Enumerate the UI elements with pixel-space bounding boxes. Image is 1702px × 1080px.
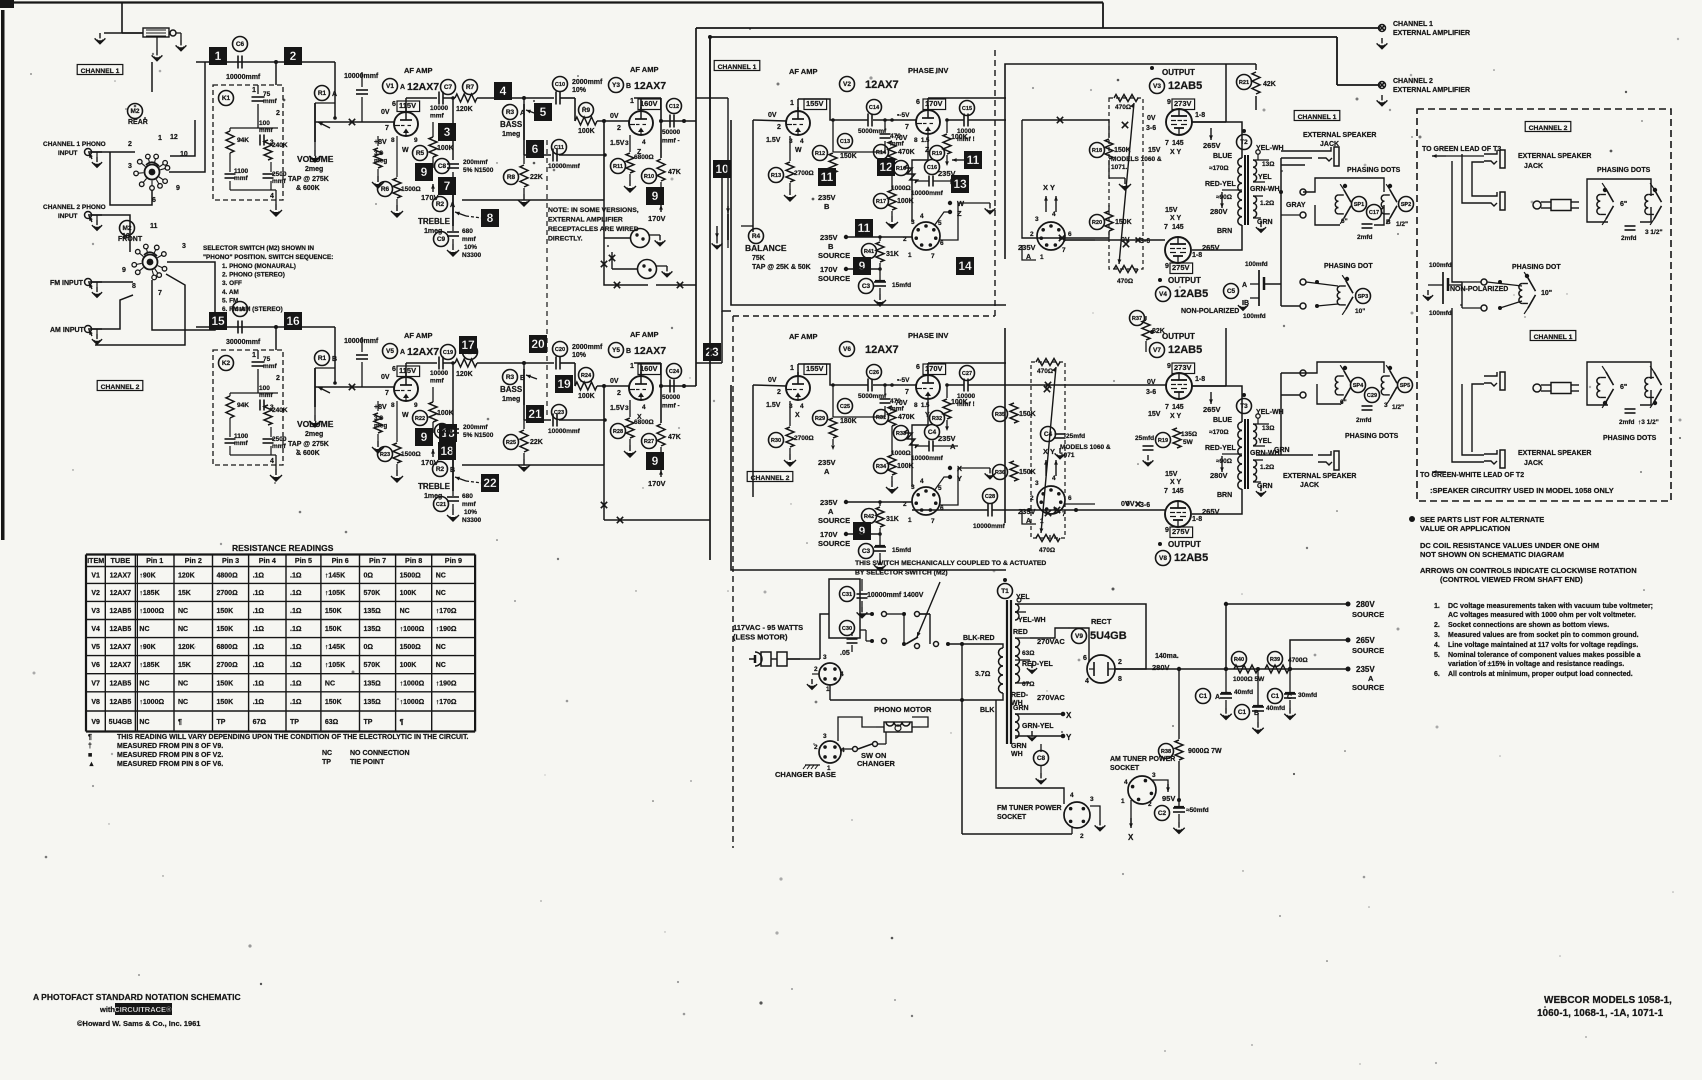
resistor R12 150K [813,120,857,185]
capacitor C19 10000mmf [430,345,456,385]
wire plate V6A run [798,364,916,387]
svg-text:SP5: SP5 [1400,383,1411,389]
svg-text:A: A [950,442,956,451]
resistor R24 120K [455,345,524,379]
svg-text:4: 4 [1052,211,1056,218]
circuitrace box 21 [526,405,544,423]
svg-text:V8: V8 [91,699,100,706]
svg-text:V7: V7 [91,680,100,687]
svg-text:1: 1 [252,87,256,94]
svg-text:1100: 1100 [234,168,248,175]
svg-text:3-6: 3-6 [1146,389,1156,396]
svg-text:100K: 100K [400,590,417,597]
svg-text:NC: NC [436,644,446,651]
svg-text:C3: C3 [862,548,871,555]
resistor R14 470K ch2 [874,383,915,426]
svg-text:.1Ω: .1Ω [253,608,265,615]
svg-text:50000: 50000 [662,129,680,136]
svg-text:265V: 265V [1203,141,1221,150]
resistor R30 2700 [769,401,814,466]
svg-text:10: 10 [122,233,130,240]
connector ext speaker jack ch1 panel upper [1484,372,1505,390]
svg-text:R2: R2 [436,466,445,473]
svg-text:R1: R1 [318,355,327,362]
svg-text:& 600K: & 600K [296,450,320,457]
potentiometer R4 balance [712,206,764,249]
svg-text:R39: R39 [1270,657,1280,663]
socket FM tuner power [1064,792,1094,840]
svg-text:V9: V9 [1075,633,1083,640]
svg-text:PHONO MOTOR: PHONO MOTOR [874,705,932,714]
label OUTPUT V8 [1156,540,1209,566]
wire tone top ch1 [522,96,554,100]
svg-text:3: 3 [823,654,827,661]
svg-text:6: 6 [1083,655,1087,662]
svg-text:.1Ω: .1Ω [290,608,302,615]
svg-text:≈170Ω: ≈170Ω [1209,429,1229,436]
circuitrace box 9 [646,452,664,470]
svg-text:↑170Ω: ↑170Ω [436,608,457,615]
svg-text:1500Ω: 1500Ω [400,572,422,579]
wire R18 R20 bus [1022,117,1109,241]
label socket pins ch1 phase [903,213,944,260]
resistor 94K ch1 [226,128,249,170]
svg-text:8: 8 [914,402,918,409]
svg-text:C7: C7 [444,84,453,91]
svg-text:9: 9 [421,430,428,444]
svg-text:V3: V3 [91,608,100,615]
label CHANNEL 2 [97,381,143,391]
wire plate V6B [928,363,1006,375]
svg-text:15V: 15V [1148,411,1161,418]
svg-text:meg: meg [374,158,387,165]
wire vertical bus left of phase sections [601,28,728,560]
wire channel2 external amplifier line [708,35,1380,120]
svg-text:235V: 235V [818,458,836,467]
svg-text:GRN-WH: GRN-WH [1250,186,1280,193]
resistor 94K ch2 [226,393,249,435]
svg-text:RED-YEL: RED-YEL [1205,445,1236,452]
connector channel2 phono jack [85,212,103,231]
svg-text:4: 4 [800,138,804,145]
svg-text:R23: R23 [380,452,390,458]
capacitor C3 15mfd ch2 [859,534,912,571]
capacitor C1B 40mfd [1235,667,1286,733]
label CHANNEL 1 [77,65,123,75]
capacitor C29 2mfd [1356,388,1380,425]
circuitrace box 14 ch1 [956,257,974,275]
svg-text:25mfd: 25mfd [1066,433,1085,440]
svg-text:10: 10 [715,162,729,176]
svg-text:CHANNEL 1: CHANNEL 1 [718,64,757,71]
svg-text:12: 12 [170,134,178,141]
svg-text:RED-: RED- [1011,692,1029,699]
svg-text:2meg: 2meg [305,431,323,438]
svg-text:12AB5: 12AB5 [109,680,131,687]
svg-text:Socket connections are shown a: Socket connections are shown as bottom v… [1448,622,1609,629]
labels transformer T3 [1205,409,1284,499]
svg-text:R32: R32 [932,416,942,422]
svg-text:OUTPUT: OUTPUT [1168,540,1201,549]
circuitrace box 22 [466,474,499,492]
svg-text:CHANGER BASE: CHANGER BASE [775,770,836,779]
svg-text:C29: C29 [1367,393,1377,399]
svg-text:R27: R27 [644,439,654,445]
svg-text:170V: 170V [820,265,838,274]
resistor R19 100K ch1 [930,118,968,166]
svg-text:470K: 470K [898,414,915,421]
svg-text:OUTPUT: OUTPUT [1162,332,1195,341]
circuitrace box 20 [529,335,547,353]
svg-text:2700Ω: 2700Ω [794,170,814,177]
label AF AMP ch1 A [404,66,432,75]
svg-text:V9: V9 [91,719,100,726]
resistor R28 6800 [611,400,654,457]
svg-text:EXTERNAL SPEAKER: EXTERNAL SPEAKER [1518,153,1591,160]
circuitrace box 11 ch1 a [818,168,836,186]
wire tone top ch2 [522,361,554,365]
svg-text:AF AMP: AF AMP [789,332,817,341]
svg-text:≈50mfd: ≈50mfd [1186,807,1209,814]
svg-text:EXTERNAL AMPLIFIER: EXTERNAL AMPLIFIER [1393,87,1470,94]
svg-text:1.5V: 1.5V [610,405,625,412]
label models ch1 [1111,156,1162,171]
capacitor C1C 30mfd [1268,669,1318,719]
label phasing dots ch1 [1347,167,1401,174]
svg-text:R24: R24 [581,373,592,379]
svg-text:5: 5 [938,485,942,492]
resistor R29 150K [813,385,857,450]
circuitrace box 5 [534,103,552,121]
wire input coupling run ch2 [196,325,335,383]
label CHANNEL 1 phase section [714,61,760,71]
resistor R11 6800 [611,135,654,192]
svg-text:12AX7: 12AX7 [865,79,899,91]
svg-text:1: 1 [1040,254,1044,261]
svg-text:2: 2 [617,390,621,397]
wire 170V feed ch1 [846,267,882,271]
label pins V5B [610,363,661,421]
capacitor C26 5000mmf [858,365,887,401]
svg-text:10%: 10% [572,352,587,359]
svg-text:CHANNEL 1 PHONO: CHANNEL 1 PHONO [43,141,106,148]
svg-text:V4: V4 [91,626,100,633]
svg-text:7: 7 [385,125,389,132]
svg-text:ITEM: ITEM [87,556,104,565]
svg-text:NOTE: IN SOME VERSIONS,: NOTE: IN SOME VERSIONS, [548,207,639,214]
svg-text:6. FM-AM (STEREO): 6. FM-AM (STEREO) [222,306,283,313]
svg-text:R5: R5 [416,150,425,157]
svg-text:↑1000Ω: ↑1000Ω [139,699,164,706]
svg-text:B: B [450,467,455,474]
svg-text:Y3: Y3 [612,82,620,89]
label phasing dots panel ch1 [1603,435,1657,442]
svg-text:9: 9 [1167,99,1171,106]
svg-text:1500Ω: 1500Ω [401,451,421,458]
svg-text:235V: 235V [820,498,838,507]
svg-text:NO CONNECTION: NO CONNECTION [350,750,410,757]
svg-text:150K: 150K [325,608,342,615]
svg-text:150K: 150K [325,626,342,633]
svg-text:W: W [402,412,409,419]
svg-text:8: 8 [1118,676,1122,683]
label 170V plate ch1 [648,205,666,223]
phono motor [874,705,932,732]
svg-text:135Ω: 135Ω [364,626,382,633]
left page edge bar [0,0,14,540]
svg-text:4: 4 [841,747,845,754]
connector phone plug ch2 panel [1533,200,1579,211]
svg-text:SOCKET: SOCKET [1110,765,1140,772]
svg-text:.1Ω: .1Ω [290,662,302,669]
svg-text:1: 1 [1040,518,1044,525]
svg-text:2000mmf: 2000mmf [572,344,603,351]
speaker SP5 [1381,365,1412,411]
svg-text:4: 4 [920,213,924,220]
resistor R6 1500 [378,136,421,217]
svg-text:3: 3 [1035,480,1039,487]
svg-text:6: 6 [940,505,944,512]
svg-text:C8: C8 [1037,755,1046,762]
wire top feedback bus [0,3,1103,34]
svg-text:R4: R4 [752,233,761,240]
svg-text:INPUT: INPUT [58,150,78,157]
circuitrace box 17 [459,336,477,354]
svg-text:235V: 235V [820,233,838,242]
label 170V treble ch2 [421,449,439,467]
svg-text:5% N1500: 5% N1500 [463,432,494,439]
svg-text:MEASURED FROM PIN 8 OF V6.: MEASURED FROM PIN 8 OF V6. [117,761,223,768]
capacitor C13 470mmf [833,120,905,152]
svg-text:7: 7 [905,389,909,396]
svg-text:.1Ω: .1Ω [253,626,265,633]
resistor R38 9000 [1159,669,1223,800]
svg-text:C26: C26 [869,370,879,376]
svg-text:100K: 100K [897,463,914,470]
svg-text:150K: 150K [217,626,234,633]
svg-text:↑190Ω: ↑190Ω [436,626,457,633]
label 235V B ch2 [818,458,836,476]
svg-text:100mfd: 100mfd [1429,310,1452,317]
svg-text:235V: 235V [1018,243,1036,252]
svg-text:RECEPTACLES ARE WIRED: RECEPTACLES ARE WIRED [548,226,639,233]
svg-text:RED-YEL: RED-YEL [1205,181,1236,188]
circuitrace box 8 [466,209,499,227]
terminal channel2 ext amp [1377,82,1388,106]
resistor 240K ch2 [264,405,288,425]
speaker panel ch2 3.5in [1645,183,1662,225]
svg-text:12AX7: 12AX7 [110,662,132,669]
tube V2 12AX7 label [840,77,899,92]
svg-text:X: X [1128,833,1134,842]
svg-text:TIE POINT: TIE POINT [350,759,385,766]
svg-text:120K: 120K [456,371,473,378]
svg-text:R20: R20 [1092,220,1102,226]
circuitrace box 2 [284,47,302,65]
svg-text:C4: C4 [1044,431,1053,438]
svg-text:.1Ω: .1Ω [253,590,265,597]
label M2 rear [128,104,148,127]
svg-text:mmf: mmf [462,236,477,243]
label pins V4 [1121,207,1220,274]
svg-text:70V: 70V [895,400,908,407]
svg-text:7: 7 [158,290,162,297]
svg-text:CHANNEL 2 PHONO: CHANNEL 2 PHONO [43,204,106,211]
svg-text:mmf: mmf [263,98,278,105]
svg-text:1: 1 [630,363,634,370]
wire panel ch1 jacks [1452,308,1484,462]
svg-text:CHANNEL 2: CHANNEL 2 [751,475,790,482]
wire speaker loop ch2 [1303,362,1384,404]
capacitor 1100mmf ch2 [225,433,249,455]
svg-text:2mfd: 2mfd [1356,417,1372,424]
svg-text:570K: 570K [364,590,381,597]
label pins V5A [374,366,420,419]
label speaker circuitry model 1058 [1430,486,1614,495]
svg-text:EXTERNAL AMPLIFIER: EXTERNAL AMPLIFIER [1393,30,1470,37]
svg-text:mmf -: mmf - [662,138,680,145]
connector ext amp receptacle 2 [638,260,673,279]
capacitor 100mmf ch2 [230,385,278,411]
switch power contacts [870,612,950,649]
svg-text:7: 7 [385,390,389,397]
svg-text:CHANNEL 2: CHANNEL 2 [1529,125,1568,132]
svg-text:7: 7 [1165,404,1169,411]
svg-text:BLK: BLK [980,707,994,714]
svg-text:2.: 2. [1434,622,1440,629]
svg-text:R12: R12 [815,151,825,157]
svg-text:C31: C31 [842,592,852,598]
svg-text:GRN: GRN [1257,219,1273,226]
svg-text:DC COIL RESISTANCE VALUES: DC COIL RESISTANCE VALUES UNDER ONE OHM [1420,541,1599,550]
svg-text:240K: 240K [272,407,288,414]
svg-text:150K: 150K [217,608,234,615]
label PHASE INV ch1 [908,66,948,75]
wire selector rear connections [88,62,205,252]
svg-text:TAP @ 275K: TAP @ 275K [288,441,329,448]
svg-text:5: 5 [540,105,547,119]
svg-text:680: 680 [462,493,473,500]
svg-text:TAP @ 275K: TAP @ 275K [288,176,329,183]
tube V9 5U4GB [1083,655,1122,685]
svg-text:100mfd: 100mfd [1243,313,1266,320]
label blk-red [963,635,995,714]
svg-text:47K: 47K [668,169,681,176]
svg-text:& 600K: & 600K [296,185,320,192]
svg-text:100K: 100K [897,198,914,205]
svg-text:V1: V1 [386,83,394,90]
svg-text:4800Ω: 4800Ω [217,572,239,579]
svg-text:V8: V8 [1159,555,1167,562]
svg-text:SOURCE: SOURCE [1352,610,1384,619]
capacitor C8 200mmf [435,159,494,175]
svg-text:6": 6" [1340,399,1347,406]
svg-text:12AB5: 12AB5 [109,699,131,706]
svg-text:A: A [450,202,455,209]
connector ext speaker jack ch1 panel lower [1484,450,1505,468]
svg-text:1500Ω: 1500Ω [400,644,422,651]
svg-text:22: 22 [483,476,497,490]
svg-text:(CONTROL VIEWED FROM SHAFT: (CONTROL VIEWED FROM SHAFT END) [1440,575,1583,584]
svg-text:11: 11 [821,170,834,184]
svg-text:6: 6 [940,240,944,247]
svg-text:1000Ω 5W: 1000Ω 5W [1233,676,1265,683]
svg-text:▲: ▲ [88,761,95,768]
svg-text:GRN: GRN [1257,483,1273,490]
circuitrace box 4 [494,82,512,100]
svg-text:Y5: Y5 [612,347,620,354]
network models dashed box ch2 [1031,362,1065,538]
resistor R37 82K [1130,311,1165,353]
svg-text:67Ω: 67Ω [253,719,267,726]
svg-text:C16: C16 [927,165,937,171]
transformer T2 primary [1192,122,1242,250]
wire balance connections [722,98,753,311]
wire crossover ch1 [1118,103,1135,264]
svg-text:.1Ω: .1Ω [290,699,302,706]
svg-text:10000mmf: 10000mmf [226,74,261,81]
svg-text:1meg: 1meg [502,131,520,138]
svg-text:10%: 10% [572,87,587,94]
svg-text:155V: 155V [806,364,824,373]
svg-text:10000mmf: 10000mmf [548,428,581,435]
svg-text:1. PHONO (MONAURAL): 1. PHONO (MONAURAL) [222,263,296,270]
label AF AMP ch2 B [630,330,658,339]
svg-text:200mmf: 200mmf [463,159,488,166]
svg-text:11: 11 [967,153,980,167]
capacitor 75mmf ch1 [252,85,281,128]
connector FM input jack [85,279,103,298]
svg-text:1.5V: 1.5V [610,140,625,147]
svg-text:C3: C3 [862,283,871,290]
circuitrace box 6 [526,140,544,158]
svg-text:63Ω: 63Ω [325,719,339,726]
transformer T2 label [1237,129,1252,150]
svg-text:DIRECTLY.: DIRECTLY. [548,236,583,243]
label AF AMP ch2 phase [789,332,817,341]
svg-text:BY SELECTOR SWITCH (M2): BY SELECTOR SWITCH (M2) [855,570,948,577]
connector ext amp receptacle 1 [631,229,666,248]
capacitor non-polarized panel [1423,262,1508,317]
connector speaker jack ch2 [1318,451,1339,470]
svg-text:Line voltage maintained at 117: Line voltage maintained at 117 volts for… [1448,642,1638,649]
capacitor C16 10000mmf ch2 [911,425,958,463]
svg-text:70V: 70V [895,135,908,142]
terminal 235V A source [1346,665,1385,692]
label external speaker jack ch2 [1283,473,1356,489]
svg-text:R17: R17 [876,199,886,205]
capacitor C20 200mmf [435,424,494,440]
svg-text:240K: 240K [272,142,288,149]
label 170V source ch2 [818,530,850,548]
capacitor C10 2000mmf [553,77,604,105]
svg-text:↑1000Ω: ↑1000Ω [400,699,425,706]
svg-text:2: 2 [617,125,621,132]
svg-text:X Y: X Y [1170,215,1181,222]
svg-text:B: B [824,202,830,211]
note external amplifier wiring [548,207,639,243]
svg-text:47K: 47K [668,434,681,441]
svg-text:B: B [950,177,956,186]
svg-text:6: 6 [1068,495,1072,502]
svg-text:3: 3 [1035,216,1039,223]
svg-text:1meg: 1meg [502,396,520,403]
svg-text:.1Ω: .1Ω [253,680,265,687]
potentiometer R1 volume [309,86,337,163]
svg-text:4: 4 [1070,792,1074,799]
svg-text:K2: K2 [222,360,231,367]
svg-text:0V: 0V [1126,501,1135,508]
